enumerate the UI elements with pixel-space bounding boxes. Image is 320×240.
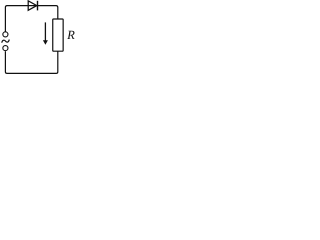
wire (left riser, top wire, right riser to resistor) bbox=[5, 6, 57, 32]
current arrow head bbox=[43, 40, 48, 45]
label R bbox=[67, 31, 75, 39]
ac source tilde bbox=[2, 40, 9, 42]
ac source terminal (bottom) bbox=[3, 46, 8, 51]
diode (anode triangle) bbox=[28, 1, 37, 11]
current arrow shaft bbox=[44, 22, 46, 41]
wire (right riser, bottom wire, left riser to source) bbox=[5, 51, 57, 73]
ac source terminal (top) bbox=[3, 32, 8, 37]
resistor R body bbox=[53, 19, 63, 51]
diode (cathode bar) bbox=[37, 1, 39, 11]
